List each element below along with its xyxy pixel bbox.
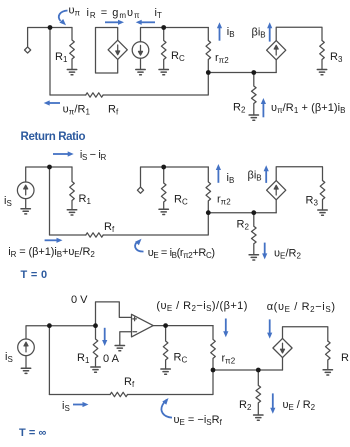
arrow iS-iR right	[53, 153, 69, 155]
svg-text:iR = (β+1)iB+υE/R2: iR = (β+1)iB+υE/R2	[8, 246, 95, 259]
wire U3 top to R3	[276, 167, 322, 181]
ground R3	[318, 210, 327, 215]
ground RC	[159, 209, 168, 214]
svg-text:υπ: υπ	[69, 5, 81, 18]
ground R1	[67, 70, 76, 75]
resistor R2	[252, 213, 257, 255]
node dot E	[47, 165, 52, 170]
svg-text:υE/R2: υE/R2	[274, 248, 302, 261]
node dot I	[47, 323, 52, 328]
arrow v/R1 left	[49, 102, 60, 104]
arrow iR right	[45, 239, 58, 241]
wire iS bottom	[25, 199, 27, 209]
svg-text:R3: R3	[330, 51, 343, 64]
wire minus input	[120, 332, 132, 346]
svg-text:(υE / R2−iS)/(β+1): (υE / R2−iS)/(β+1)	[156, 300, 247, 313]
node dot J	[93, 323, 98, 328]
ground R2b	[254, 415, 263, 420]
svg-text:iS − iR: iS − iR	[80, 149, 107, 162]
arrow iB up	[217, 169, 219, 183]
arrow 0A down	[104, 328, 106, 341]
arrow beta-iB up	[269, 27, 271, 41]
arrow feedback current down	[225, 319, 227, 333]
ground R2	[249, 255, 258, 260]
svg-text:0 A: 0 A	[103, 353, 120, 365]
wire bottom feedback	[49, 370, 213, 395]
wire U2 top to R3	[276, 27, 322, 40]
arrow R2 up	[262, 103, 264, 117]
arrow beta iB up	[265, 170, 267, 183]
svg-text:υE / R2: υE / R2	[283, 399, 316, 412]
resistor R1	[70, 167, 75, 210]
dependent source U3	[267, 181, 286, 200]
svg-text:υE = iB(rπ2+RC): υE = iB(rπ2+RC)	[148, 247, 215, 260]
wire I1 top rail	[141, 28, 209, 42]
ground Rb	[323, 370, 332, 375]
svg-text:iS: iS	[5, 351, 13, 364]
svg-text:iS: iS	[4, 195, 12, 208]
svg-text:iR = gmυπ: iR = gmυπ	[87, 7, 140, 20]
terminal port P2	[137, 187, 143, 193]
wire P2 to rail	[141, 167, 209, 187]
svg-text:RC: RC	[174, 194, 188, 207]
resistor R2	[252, 73, 257, 116]
current source iS2	[18, 339, 35, 356]
svg-text:R3: R3	[306, 195, 319, 208]
node dot C	[206, 70, 211, 75]
wire node A down	[49, 28, 51, 96]
resistor rpi2	[206, 167, 211, 213]
ground RCb	[161, 369, 170, 374]
wire 0V loop	[96, 302, 132, 326]
wire iS2 to rail	[26, 326, 96, 339]
dependent source U2	[267, 41, 286, 60]
node dot B	[161, 25, 166, 30]
resistor RC	[161, 167, 166, 209]
resistor RC	[161, 28, 166, 70]
curved arrow vE	[135, 243, 143, 252]
svg-text:Rf: Rf	[104, 221, 115, 234]
ground iS2	[21, 368, 30, 373]
svg-text:Rf: Rf	[108, 104, 119, 117]
ground RC	[159, 70, 168, 75]
ground R3	[317, 70, 326, 75]
ground I1	[136, 70, 145, 75]
ground R1	[67, 210, 76, 215]
op-amp A1	[132, 314, 154, 337]
wire I1 bottom	[140, 58, 142, 69]
arrow alpha current down	[269, 319, 271, 333]
wire middle node	[208, 212, 276, 214]
ground R2	[249, 115, 258, 120]
svg-text:R: R	[341, 352, 349, 364]
resistor Rfb	[110, 392, 127, 396]
svg-text:υπ/R1 + (β+1)iB: υπ/R1 + (β+1)iB	[271, 102, 346, 115]
curved arrow vE bottom	[161, 400, 172, 418]
svg-text:0 V: 0 V	[71, 294, 88, 306]
resistor R3	[320, 41, 325, 70]
arrow vE/R2 down	[264, 243, 266, 255]
resistor Rf	[86, 233, 103, 237]
op-amp plus	[133, 317, 137, 321]
wire U3 bottom	[275, 200, 277, 213]
svg-text:T = 0: T = 0	[21, 269, 48, 281]
svg-text:α(υE / R2−iS): α(υE / R2−iS)	[267, 301, 335, 314]
svg-text:iB: iB	[227, 26, 235, 39]
svg-text:rπ2: rπ2	[217, 194, 231, 207]
arrow iB up	[219, 27, 221, 40]
node dot A	[48, 25, 53, 30]
svg-text:Rf: Rf	[124, 376, 135, 389]
resistor R1	[70, 28, 75, 70]
arrow iR right	[105, 21, 119, 23]
svg-text:βiB: βiB	[248, 170, 262, 183]
wire node E down	[49, 167, 51, 235]
arrow vE/R2 down	[272, 393, 274, 408]
svg-text:iT: iT	[155, 7, 162, 20]
dependent source U1	[108, 40, 127, 59]
ground R1b	[91, 367, 100, 372]
op-amp minus	[133, 331, 137, 333]
wire middle node	[213, 369, 283, 371]
svg-text:υπ/R1: υπ/R1	[63, 104, 91, 117]
current source I1	[132, 42, 149, 59]
svg-text:RC: RC	[174, 352, 188, 365]
resistor R2b	[256, 370, 261, 415]
resistor Rb	[325, 341, 330, 370]
current source iS	[17, 182, 34, 199]
svg-text:rπ2: rπ2	[222, 353, 236, 366]
svg-text:iB: iB	[227, 172, 235, 185]
wire U4 top to R	[283, 327, 328, 341]
wire U4 bottom	[282, 358, 284, 370]
dependent source U4	[273, 338, 292, 357]
node dot F	[161, 165, 166, 170]
wire iS to rail	[26, 167, 72, 182]
wire node I down	[48, 326, 50, 395]
svg-text:Return Ratio: Return Ratio	[21, 131, 86, 143]
resistor rpi2b	[211, 326, 216, 370]
svg-text:T = ∞: T = ∞	[19, 427, 47, 439]
node dot D	[251, 70, 256, 75]
ground op-amp	[115, 346, 124, 351]
svg-text:βiB: βiB	[252, 27, 266, 40]
wire input to rail	[28, 28, 72, 47]
resistor R3	[320, 181, 325, 211]
svg-text:R1: R1	[77, 352, 90, 365]
ground iS	[21, 209, 30, 214]
node dot G	[206, 210, 211, 215]
svg-text:υE = −iSRf: υE = −iSRf	[174, 414, 223, 427]
curved arrow v_pi	[59, 11, 68, 22]
resistor Rf	[86, 93, 103, 97]
terminal port P1	[25, 47, 31, 53]
wire bottom feedback	[50, 73, 208, 96]
dependent source U1 loop	[96, 28, 118, 74]
node dot H	[251, 210, 256, 215]
svg-text:R2: R2	[239, 399, 252, 412]
wire iS2 bottom	[25, 356, 27, 369]
resistor RCb	[163, 326, 168, 369]
node dot M	[256, 368, 261, 373]
arrow iT left	[141, 21, 155, 23]
svg-text:rπ2: rπ2	[215, 52, 229, 65]
node dot K	[163, 323, 168, 328]
wire bottom feedback	[50, 213, 209, 235]
resistor R1b	[93, 326, 98, 367]
svg-text:R2: R2	[237, 219, 250, 232]
svg-text:R1: R1	[55, 51, 68, 64]
svg-text:R2: R2	[233, 102, 246, 115]
wire U2 bottom	[275, 60, 277, 73]
svg-text:R1: R1	[79, 193, 92, 206]
resistor rpi2	[206, 28, 211, 73]
node dot L	[211, 368, 216, 373]
wire output	[153, 325, 213, 327]
arrow iS right	[73, 404, 84, 406]
wire middle node	[208, 72, 276, 74]
svg-text:iS: iS	[62, 400, 70, 413]
svg-text:RC: RC	[171, 50, 185, 63]
